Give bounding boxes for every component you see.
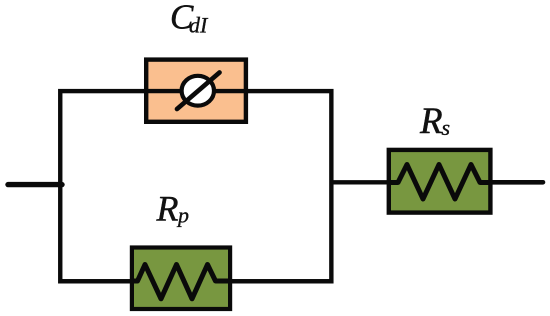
svg-text:R: R [156, 189, 179, 229]
wire W1: left terminal stub [8, 182, 62, 187]
capacitor Cdl symbol circle [182, 76, 214, 106]
wire W4: bottom branch conductor (passes under Rp) [60, 279, 331, 283]
svg-text:dI: dI [189, 12, 209, 37]
resistor Rp zigzag [131, 265, 230, 299]
svg-text:s: s [442, 115, 451, 140]
resistor Rs body [389, 150, 491, 213]
wire W3: top branch conductor through Cdl [146, 89, 246, 93]
resistor Rs zigzag [388, 165, 492, 200]
capacitor Cdl symbol diagonal stroke [177, 73, 220, 110]
svg-text:p: p [176, 203, 189, 228]
wire W2: parallel-branch loop (left vertical, top branch, right vertical, bottom branch) [60, 91, 331, 281]
capacitor Cdl body [146, 60, 246, 122]
resistor Rp body [132, 248, 230, 310]
wire W5: middle branch from right vertical to Rs [331, 180, 390, 184]
wire W6: right terminal stub [492, 180, 543, 185]
svg-text:R: R [419, 101, 443, 142]
